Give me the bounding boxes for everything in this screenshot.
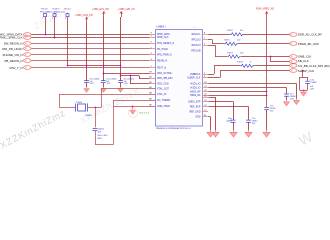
junction rail xyxy=(120,65,122,67)
wire REF_BYP xyxy=(209,106,249,108)
pin stub HSD2_IO xyxy=(202,87,209,89)
wire C44D1 to ground xyxy=(86,83,88,88)
pin stub HSD1_NF xyxy=(202,91,209,93)
svg-text:-20%: -20% xyxy=(89,83,94,85)
wire SLEEP_CLK xyxy=(208,77,220,79)
wire C44D2 to ground xyxy=(103,83,105,88)
svg-text:SPMI_DATA: SPMI_DATA xyxy=(157,33,170,36)
junction staple gnd xyxy=(303,90,305,92)
wire VDD_IPB jog xyxy=(139,76,141,78)
pin stub LNBBCLK xyxy=(202,74,208,76)
wire C4B08 down xyxy=(233,123,235,131)
svg-text:SPMI_CLK: SPMI_CLK xyxy=(157,37,169,39)
off-page connector PRAM_BK_SUS xyxy=(289,42,297,46)
pin stub RSV_T_N xyxy=(150,67,156,69)
svg-text:C4400: C4400 xyxy=(98,128,105,130)
junction VDD_ACTIVE branch xyxy=(103,73,105,75)
svg-text:RFCLK3: RFCLK3 xyxy=(192,45,202,47)
pullup resistor R4401 xyxy=(53,13,56,17)
wire REF_BYP down xyxy=(248,107,250,120)
svg-text:HSD2_NF: HSD2_NF xyxy=(190,95,201,97)
wire R4401 to bus xyxy=(54,17,56,38)
wire bottom loop xyxy=(95,144,114,146)
capacitor C4B12 xyxy=(246,120,251,122)
wire RFCLK2 jog xyxy=(212,40,214,44)
watermark (decorative) xyxy=(0,6,316,152)
wire DRI_PD_HOLD xyxy=(31,48,149,50)
svg-text:GMB_CLK: GMB_CLK xyxy=(298,55,312,59)
ground C4B12 xyxy=(245,130,252,137)
capacitor C4605 xyxy=(264,108,269,110)
pin stub RFCLK2 xyxy=(202,39,208,41)
svg-text:TK4B4T: TK4B4T xyxy=(52,9,60,11)
wire HSD1_IO xyxy=(209,83,297,85)
svg-text:TL0BP4: TL0BP4 xyxy=(85,115,93,117)
svg-text:RFCLKB: RFCLKB xyxy=(191,50,201,52)
svg-text:KPD_PWR_N: KPD_PWR_N xyxy=(157,55,172,57)
wire loop vertical xyxy=(113,100,115,145)
wire HSD2_IO down xyxy=(286,88,288,94)
wire HSD1_IO down xyxy=(296,84,298,99)
svg-text:/LN_BB_CLK2_NP1 (B3): /LN_BB_CLK2_NP1 (B3) xyxy=(298,64,330,68)
wire staple right xyxy=(307,77,309,81)
wire +VBD_LVB_XO xyxy=(121,12,123,17)
wire SB vertical xyxy=(270,57,272,62)
junction R4402 xyxy=(67,65,69,67)
svg-text:SB_CLK: SB_CLK xyxy=(298,59,309,63)
wire R4402 to bus xyxy=(67,17,69,66)
wire staple right b xyxy=(307,84,309,90)
svg-text:1: 1 xyxy=(65,18,66,20)
svg-text:+VBD_LVB_XO: +VBD_LVB_XO xyxy=(118,8,135,11)
pin stub PMIC_SPMI_DATA xyxy=(150,34,156,36)
svg-text:PHONE_ON_N: PHONE_ON_N xyxy=(3,53,23,57)
wire to SLEEP_CLK conn xyxy=(220,70,289,72)
resistor R4800 xyxy=(230,33,244,36)
off-page connector SLEEP_CLK xyxy=(289,69,297,73)
wire XTAL_OUT xyxy=(102,88,156,90)
svg-text:XO_THERM: XO_THERM xyxy=(157,100,170,102)
wire PB_RESIN_N xyxy=(31,60,149,62)
svg-text:500+/-10%: 500+/-10% xyxy=(98,135,108,137)
pin stub GND xyxy=(202,116,208,118)
pin stub VDD_IPB xyxy=(150,78,156,80)
wire RFCLK3 b xyxy=(215,56,227,58)
power arrow +VBD_LVB_XO xyxy=(120,12,123,14)
wire RFCLK3 xyxy=(208,45,215,47)
wire to SB_XXB xyxy=(270,61,289,63)
wire SLEEP_CLK jog xyxy=(220,71,222,78)
svg-text:XTAL_IN: XTAL_IN xyxy=(157,93,167,96)
ground GND pin xyxy=(207,130,214,137)
svg-text:PMIC_SPMI_CLK: PMIC_SPMI_CLK xyxy=(0,35,23,39)
pin stub RFCLK3 xyxy=(202,45,208,47)
svg-text:R4801: R4801 xyxy=(224,40,231,42)
resistor R4802 xyxy=(227,55,241,58)
svg-text:HSD1_NF: HSD1_NF xyxy=(190,91,201,93)
svg-text:TP11.mAB011.mAB011.mzq: TP11.mAB011.mAB011.mzq xyxy=(40,10,65,13)
wire LNBBCLK jog xyxy=(214,66,216,74)
wire cap C4400 top xyxy=(95,108,97,128)
junction crystal cap xyxy=(95,107,97,109)
power arrow +VBD_EX1_PR xyxy=(103,12,106,14)
ground C44E3 xyxy=(301,90,307,96)
pin stub REF_GND xyxy=(202,111,208,113)
ground C4B06 xyxy=(284,100,290,106)
wire GND down xyxy=(210,117,212,131)
off-page connector DDR_AD_CLK_RF xyxy=(289,33,297,37)
wire XTAL_OUT vertical xyxy=(101,89,103,108)
pin stub PHONE_ON_N xyxy=(150,54,156,56)
svg-text:GND_XSNS: GND_XSNS xyxy=(157,106,170,108)
wire RUN_VREG_XB xyxy=(266,12,268,108)
svg-text:HSD2_IO: HSD2_IO xyxy=(191,87,201,89)
wire C44D3 to ground xyxy=(120,83,122,88)
svg-text:47k: 47k xyxy=(240,30,243,32)
wire to GMB_CLK xyxy=(241,56,289,58)
off-page connector /LN_BB_CLK2_NP1 (B3) xyxy=(289,64,297,68)
wire +VBD_EX1_PR xyxy=(103,12,105,17)
wire VDD_IPB a xyxy=(121,75,139,77)
junction SB tap xyxy=(270,56,272,58)
wire to /LN_BB_CLK2 xyxy=(254,65,289,67)
pullup resistor R4400 xyxy=(44,13,47,17)
wire C4605 down xyxy=(266,110,268,130)
ground HSD_BB xyxy=(212,130,219,137)
svg-text:HSD1_IO: HSD1_IO xyxy=(191,83,201,85)
wire to DDR_AD_CLK xyxy=(244,34,289,36)
wire LNBBCLK b xyxy=(214,65,240,67)
wire RFCLK1 xyxy=(209,34,231,36)
wire VDD_CON vert xyxy=(130,76,132,84)
wire PMIC_SPMI_DATA xyxy=(31,34,149,36)
wire to PRAM_BK_SUS xyxy=(238,43,289,45)
wire HSD1_NF xyxy=(209,91,267,93)
wire staple bottom xyxy=(300,90,308,92)
svg-text:PRAM_BK_SUS: PRAM_BK_SUS xyxy=(298,42,319,46)
wire staple top xyxy=(300,77,308,79)
junction VDD_CON branch xyxy=(130,75,132,77)
wire XO_THERM xyxy=(114,100,156,102)
wire power vertical C44D1 xyxy=(86,23,88,81)
capacitor C44D3 xyxy=(118,81,123,83)
wire HSD2_NF xyxy=(209,95,267,97)
resistor R4801 xyxy=(224,42,238,45)
svg-text:RFCLK2: RFCLK2 xyxy=(192,39,202,41)
off-page connector SB_CLK xyxy=(289,60,297,64)
wire GNDS_BTP xyxy=(209,101,234,103)
svg-text:1: 1 xyxy=(42,18,43,20)
junction rail xyxy=(103,65,105,67)
pin stub REF_BYP xyxy=(202,106,209,108)
svg-text:Y4400: Y4400 xyxy=(76,102,83,104)
junction rail HSD1_NF xyxy=(266,91,268,93)
svg-text:DDR_AD_CLK_RF: DDR_AD_CLK_RF xyxy=(298,32,322,36)
pin stub HSD1_IO xyxy=(202,83,209,85)
wire sleep cap xyxy=(302,71,304,77)
svg-text:10%: 10% xyxy=(252,123,256,125)
wire power vertical C44D3 xyxy=(120,17,122,81)
svg-text:BLK V 0.4: BLK V 0.4 xyxy=(140,113,150,115)
off-page connector GMB_CLK xyxy=(289,55,297,59)
pin stub HSD2_NF xyxy=(202,95,209,97)
svg-text:+VBD_EX1_PR: +VBD_EX1_PR xyxy=(92,8,109,11)
wire XTAL_IN xyxy=(59,94,155,96)
wire RSV_T_N xyxy=(31,67,149,69)
wire R4400 to bus xyxy=(45,17,47,35)
svg-text:VDD_IPB_EX1: VDD_IPB_EX1 xyxy=(157,78,173,80)
junction sleep cap xyxy=(302,70,304,72)
junction rail xyxy=(86,65,88,67)
svg-text:SLEEP_CLK: SLEEP_CLK xyxy=(298,69,314,73)
svg-text:RUN_VREG_XB: RUN_VREG_XB xyxy=(256,8,274,11)
ground C44D1 xyxy=(84,87,89,92)
wire PMIC_SPMI_CLK xyxy=(31,37,149,39)
svg-text:R4802: R4802 xyxy=(227,52,234,54)
svg-text:10%: 10% xyxy=(270,110,274,112)
svg-text:DRI_PD_HOLD: DRI_PD_HOLD xyxy=(2,47,22,51)
off-page connector SW_RESIN_N xyxy=(24,42,32,46)
svg-text:-20%: -20% xyxy=(310,89,315,91)
wire GND_XSNS xyxy=(114,106,156,108)
svg-text:TP440J: TP440J xyxy=(64,9,71,11)
ground C44D2 xyxy=(101,87,106,92)
pin stub DRI_PD_HOLD xyxy=(150,48,156,50)
wire C4B06 down xyxy=(286,96,288,100)
wire GNDS_BTP down xyxy=(233,102,235,120)
svg-text:REF_BYP: REF_BYP xyxy=(190,106,201,108)
svg-text:-20%: -20% xyxy=(106,83,111,85)
off-page connector RSV_T_N xyxy=(24,66,32,70)
svg-text:REF_GND: REF_GND xyxy=(189,111,200,113)
svg-text:PB_RESIN_N: PB_RESIN_N xyxy=(5,59,23,63)
svg-text:PMK8002-0-107WFBGA-TR-P5.0C-0: PMK8002-0-107WFBGA-TR-P5.0C-0 xyxy=(156,127,191,130)
wire GND pin xyxy=(208,116,210,118)
svg-text:NPO: NPO xyxy=(98,138,103,140)
pin stub VDD_ACTIVE xyxy=(150,73,156,75)
svg-text:LNBBCLK: LNBBCLK xyxy=(190,74,201,76)
svg-text:+VBD_CON_PR: +VBD_CON_PR xyxy=(75,14,93,17)
wire C4B12 down xyxy=(248,123,250,131)
wire RFCLK2 xyxy=(208,39,212,41)
svg-text:-20%: -20% xyxy=(124,83,129,85)
wire to analog ground xyxy=(132,106,134,109)
svg-text:TP4400: TP4400 xyxy=(41,9,49,11)
wire PHONE_ON_N xyxy=(31,54,149,56)
svg-text:SLEEP_CLK: SLEEP_CLK xyxy=(187,77,201,79)
pin stub GNDS_BTP xyxy=(202,101,209,103)
svg-text:RFCLK1: RFCLK1 xyxy=(192,34,202,36)
svg-text:-20%: -20% xyxy=(290,99,295,101)
resistor R4B03 xyxy=(240,64,254,67)
ground C4605 xyxy=(263,130,270,137)
off-page connector PHONE_ON_N xyxy=(24,53,32,57)
svg-text:GND: GND xyxy=(195,116,200,118)
ground C44D3 xyxy=(118,87,123,92)
wire +VBD_CON_PR xyxy=(86,17,88,23)
wire VDD_ACTIVE xyxy=(103,73,149,75)
svg-text:R4800: R4800 xyxy=(227,30,234,32)
junction R4400 xyxy=(45,34,47,36)
pin stub SW_RESIN_N xyxy=(150,43,156,45)
ground HSD1_IO xyxy=(294,99,300,105)
pin stub VDD_CON xyxy=(150,83,156,85)
wire HSD_BB xyxy=(209,97,216,99)
svg-text:RESIN_N: RESIN_N xyxy=(157,61,167,63)
wire VDD_IPB b xyxy=(139,78,150,80)
wire VDD_CON xyxy=(130,83,150,85)
junction GND_XSNS xyxy=(132,106,134,108)
pin stub HSD_BB xyxy=(202,97,209,99)
svg-text:RSV_T_N: RSV_T_N xyxy=(9,66,22,70)
capacitor C44D1 xyxy=(84,81,89,83)
off-page connector DRI_PD_HOLD xyxy=(24,47,32,51)
pin stub RFCLK1 xyxy=(202,34,209,36)
svg-text:PON_RESET_N: PON_RESET_N xyxy=(157,43,174,45)
analog ground symbol xyxy=(128,108,137,117)
svg-text:VDD_CON: VDD_CON xyxy=(157,83,169,85)
capacitor C44D2 xyxy=(101,81,106,83)
svg-text:VDD_ACTIVE: VDD_ACTIVE xyxy=(157,72,172,75)
off-page connector PB_RESIN_N xyxy=(24,59,32,63)
svg-text:C4B08: C4B08 xyxy=(226,121,232,123)
wire LNBBCLK xyxy=(208,74,214,76)
wire SW_RESIN_N xyxy=(31,43,149,45)
wire RFCLK3 jog xyxy=(215,45,217,57)
wire XTAL_IN vertical xyxy=(59,94,61,108)
svg-text:PS_HOLD: PS_HOLD xyxy=(157,49,168,51)
wire staple left xyxy=(299,77,301,90)
wire to crystal left xyxy=(59,107,75,109)
junction VDD_IPB branch xyxy=(120,75,122,77)
capacitor C4B06 xyxy=(284,94,289,96)
svg-text:R4B03: R4B03 xyxy=(237,62,244,64)
power arrow RUN_VREG_XB xyxy=(265,12,268,14)
svg-text:XTAL_OUT: XTAL_OUT xyxy=(157,87,169,90)
off-page connector PMIC_SPMI_DATA xyxy=(24,33,32,37)
junction R4401 xyxy=(54,37,56,39)
junction rail HSD2_NF xyxy=(266,95,268,97)
pin stub SLEEP_CLK xyxy=(202,77,208,79)
svg-text:SW_RESIN_N: SW_RESIN_N xyxy=(4,41,23,45)
wire HSD_BB down xyxy=(215,97,217,130)
svg-text:RSVT_N: RSVT_N xyxy=(157,68,167,70)
wire power vertical C44D2 xyxy=(103,17,105,81)
ground C4B08 xyxy=(230,130,237,137)
wire VDD rail xyxy=(68,65,121,67)
capacitor C4B08 xyxy=(231,120,236,122)
wire HSD2_IO xyxy=(209,87,287,89)
pullup resistor R4402 xyxy=(66,13,69,17)
wire cap C4400 bottom xyxy=(95,131,97,145)
pin stub PMIC_SPMI_CLK xyxy=(150,37,156,39)
power arrow +VBD_CON_PR xyxy=(85,17,88,19)
svg-text:GNDS_BTP: GNDS_BTP xyxy=(188,101,201,103)
svg-text:C44E3: C44E3 xyxy=(310,82,317,84)
pin stub PB_RESIN_N xyxy=(150,60,156,62)
svg-text:1: 1 xyxy=(52,18,53,20)
off-page connector PMIC_SPMI_CLK xyxy=(24,36,32,40)
wire to crystal right xyxy=(88,107,102,109)
svg-text:U4800 I: U4800 I xyxy=(157,25,166,29)
wire RFCLK2 b xyxy=(212,43,224,45)
capacitor C4400 xyxy=(93,128,98,130)
